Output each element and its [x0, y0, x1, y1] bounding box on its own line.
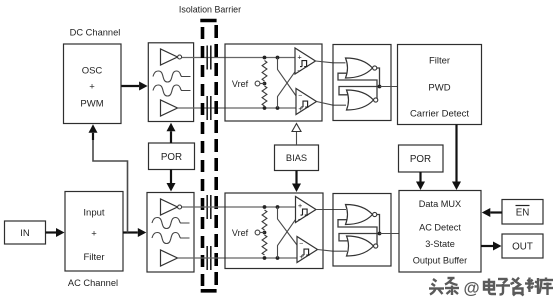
node latch1 out dot: [378, 85, 382, 89]
svg-text:3-State: 3-State: [425, 239, 455, 249]
waveform TX2 row2: [152, 233, 190, 244]
svg-text:OSC: OSC: [82, 65, 103, 76]
comparator U4 bottom: [297, 237, 318, 263]
node dot B1: [263, 205, 267, 209]
svg-text:DC Channel: DC Channel: [70, 28, 121, 38]
node dot Vref2 mid: [263, 231, 267, 235]
nor gate G3 top: [346, 205, 373, 225]
svg-text:−: −: [299, 240, 303, 247]
buffer TX2 bottom: [161, 250, 178, 266]
overline EN: [516, 205, 530, 207]
svg-text:Vref: Vref: [232, 228, 249, 238]
svg-text:Output Buffer: Output Buffer: [413, 256, 467, 266]
svg-text:Filter: Filter: [83, 252, 104, 263]
svg-text:POR: POR: [410, 154, 431, 165]
svg-text:+: +: [89, 81, 95, 92]
node dot A2: [276, 56, 280, 60]
terminal Vref1 circle: [255, 81, 260, 86]
arrow branch into OSC: [92, 133, 94, 140]
comparator U1 top: [295, 48, 316, 74]
wire U2 out to latch: [317, 102, 347, 106]
svg-text:IN: IN: [20, 228, 30, 239]
block Filter/PWD: [398, 45, 482, 125]
wire latch1 fbA: [338, 73, 377, 100]
arrow EN to DataMUX: [490, 211, 502, 213]
wire cross X1 down: [278, 58, 297, 97]
wire inputfilter to TX2 arrow: [123, 231, 138, 233]
svg-text:Vref: Vref: [232, 79, 249, 89]
block POR2: [399, 145, 444, 172]
resistor R1a: [262, 61, 267, 82]
block DataMUX: [399, 191, 481, 273]
svg-text:−: −: [297, 68, 301, 75]
wire latch2 out: [380, 233, 400, 235]
comparator U2 bottom: [296, 89, 317, 115]
waveform TX1 row1: [153, 71, 191, 82]
barrier dashed line left: [201, 27, 205, 286]
svg-text:Input: Input: [83, 208, 104, 219]
capacitor plates crossing 1: [206, 46, 208, 70]
wire Vref2 stub: [260, 232, 265, 234]
node dot A3: [263, 106, 267, 110]
resistor R2b: [262, 235, 267, 255]
capacitor plates crossing 2: [206, 96, 208, 120]
node dot B3: [263, 256, 267, 260]
node latch2 out dot: [378, 232, 382, 236]
svg-text:−: −: [298, 92, 302, 99]
block RX2 comparators: [225, 193, 323, 269]
capacitor plates crossing 3: [206, 195, 208, 219]
arrow BIAS up hollow: [296, 131, 298, 145]
svg-text:@: @: [463, 280, 479, 298]
wire cross X2 up: [278, 219, 297, 258]
svg-text:PWD: PWD: [428, 82, 450, 93]
wire latch1 fbB: [339, 68, 380, 95]
wire OSC to driver arrow: [122, 85, 140, 87]
node dot B2: [276, 205, 280, 209]
wire U4 out to latch: [318, 250, 348, 252]
block OSC+PWM: [64, 44, 122, 124]
arrow DataMUX to OUT: [481, 245, 493, 247]
block latch1: [333, 45, 391, 121]
wire ch2 line B: [178, 257, 298, 259]
capacitor plates crossing 4: [206, 246, 208, 270]
svg-text:Isolation Barrier: Isolation Barrier: [179, 4, 241, 14]
wire Filter down arrow: [455, 125, 457, 182]
barrier dashed line right: [214, 25, 218, 288]
nor gate G4 bottom: [347, 236, 374, 256]
inverter TX1 top: [161, 49, 178, 65]
node dot B4: [276, 256, 280, 260]
wire ch1 line B: [178, 107, 297, 109]
wire latch2 fbA: [338, 220, 377, 246]
svg-text:Filter: Filter: [429, 55, 450, 66]
node dot A1: [263, 56, 267, 60]
inverter TX2 top: [161, 199, 178, 215]
wire branch up to OSC: [93, 134, 128, 233]
block driver TX2: [147, 193, 194, 273]
svg-text:OUT: OUT: [512, 242, 533, 253]
arrow POR1 up to TX1: [170, 131, 172, 143]
svg-text:BIAS: BIAS: [286, 153, 307, 163]
block POR1: [149, 143, 195, 170]
wire latch1 out: [380, 86, 398, 88]
block driver TX1: [148, 43, 193, 122]
wire cross X2 down: [278, 207, 298, 245]
waveform TX2 row1: [152, 218, 190, 229]
block BIAS: [275, 145, 319, 171]
wire ch2 line A: [182, 206, 296, 208]
svg-text:AC Detect: AC Detect: [419, 223, 461, 233]
block latch2: [333, 194, 391, 267]
watermark CJK glyphs: [429, 278, 553, 296]
wire cross X1 up: [278, 70, 297, 108]
svg-text:+: +: [91, 229, 97, 240]
svg-text:−: −: [298, 216, 302, 223]
arrow POR2 down: [419, 172, 421, 182]
nor gate G1 top: [346, 58, 373, 78]
nor gate G2 bottom: [347, 90, 374, 110]
wire Vref1 stub: [260, 83, 265, 85]
block Input+Filter: [65, 192, 123, 272]
block EN: [502, 200, 543, 225]
buffer TX1 bottom: [161, 100, 178, 116]
resistor R2a: [262, 210, 267, 230]
node dot A4: [276, 106, 280, 110]
svg-text:EN: EN: [516, 208, 530, 219]
svg-text:PWM: PWM: [80, 98, 103, 109]
comparator U3 top: [296, 197, 317, 223]
wire ch1 line A: [182, 57, 295, 59]
arrow IN to input filter: [46, 231, 57, 233]
barrier top corner: [200, 19, 216, 23]
barrier bottom corner: [201, 289, 217, 293]
svg-text:POR: POR: [161, 152, 182, 163]
arrow BIAS down: [295, 171, 297, 184]
node dot Vref1 mid: [263, 82, 267, 86]
block OUT: [502, 234, 543, 258]
block IN: [5, 221, 46, 244]
svg-text:Data MUX: Data MUX: [419, 199, 461, 209]
arrow POR1 down to TX2: [170, 170, 172, 184]
svg-text:AC Channel: AC Channel: [68, 278, 118, 288]
resistor R1b: [262, 86, 267, 106]
waveform TX1 row2: [153, 85, 191, 96]
wire U1 out to latch: [316, 61, 346, 63]
wire U3 out to latch: [316, 209, 346, 211]
block RX1 comparators: [225, 44, 322, 121]
wire latch2 fbB: [339, 215, 380, 241]
terminal Vref2 circle: [255, 230, 260, 235]
svg-text:Carrier Detect: Carrier Detect: [410, 108, 469, 119]
